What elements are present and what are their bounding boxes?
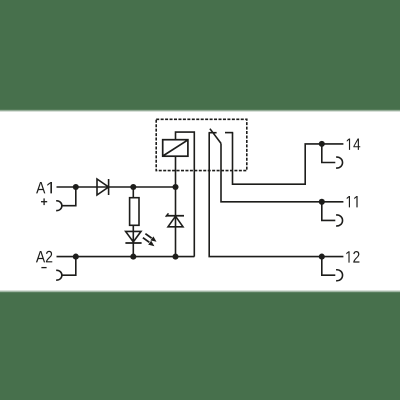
wire NO contact to terminal 14 — [233, 133, 344, 185]
node 14 junction — [319, 141, 325, 147]
node LED branch top — [130, 184, 136, 190]
resistor R1 — [130, 198, 139, 226]
relay coil K1 — [163, 140, 188, 157]
wire common to terminal 11 — [221, 143, 343, 201]
node 11 junction — [319, 199, 325, 205]
polarity - — [41, 267, 46, 269]
LED arrow 2 — [143, 238, 149, 243]
relay boundary dashed box — [156, 119, 247, 170]
clamp terminal A2 — [62, 257, 76, 276]
clamp terminal 14 — [322, 144, 336, 163]
node coil/diode branch top — [172, 184, 178, 190]
clamp terminal 12 — [322, 257, 336, 276]
suppressor diode D3 — [167, 215, 184, 217]
wire coil top return to A2 — [176, 132, 195, 257]
diode D1 (series protection) — [97, 179, 109, 195]
wire NC contact to terminal 12 — [209, 133, 343, 257]
wire LED branch — [132, 187, 134, 257]
switch NO contact bar — [225, 132, 233, 134]
clamp terminal 11 — [322, 202, 336, 221]
wire coil bottom lead — [175, 156, 177, 187]
terminal label 12 — [346, 251, 359, 263]
node diode branch bottom — [172, 254, 178, 260]
wire A1 rail — [57, 186, 176, 188]
node A2-clamp junction — [73, 254, 79, 260]
node 12 junction — [319, 254, 325, 260]
switch movable contact — [210, 129, 221, 144]
clamp terminal A1 — [62, 187, 76, 206]
LED D2 — [126, 231, 141, 242]
switch NC contact bar — [209, 132, 217, 134]
terminal label 14 — [347, 139, 360, 150]
node A1-clamp junction — [73, 184, 79, 190]
terminal label 11 — [347, 196, 358, 207]
wire freewheel diode branch — [175, 187, 177, 257]
LED arrow 1 — [143, 234, 157, 247]
wire A2 rail — [57, 256, 195, 258]
node LED branch bottom — [130, 254, 136, 260]
polarity + — [41, 198, 47, 205]
terminal label A2 — [36, 251, 52, 263]
terminal label A1 — [36, 182, 52, 193]
